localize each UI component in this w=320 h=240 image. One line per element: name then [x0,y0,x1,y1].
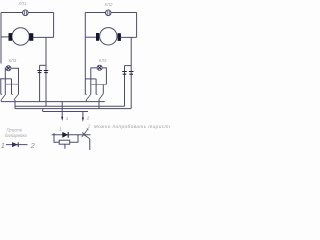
svg-text:Можно попробовать тиристор: Можно попробовать тиристор [94,124,170,129]
svg-text:КЛ4: КЛ4 [99,58,107,63]
diode VD1 on main wire [62,132,68,138]
svg-text:2: 2 [30,141,35,150]
wire: vertical x0.8 [0,79,2,95]
arrow 2 (down) [82,112,84,122]
bottom module: main wire [52,134,91,136]
wire: S3 to bus A [85,100,87,102]
wire: S2 to bus C [14,100,16,109]
wire: motor M2 left brush lead [85,36,96,38]
wire: lead from R1 bottom [64,144,66,149]
relay box K1 (open bottom) [5,68,18,94]
thyristor VS1 scribble [82,132,90,139]
bus D [43,111,88,113]
connector contact ticks on x39.6 [37,71,42,73]
wire: vertical x96.1 [95,79,97,95]
connector contact ticks on x46 [44,71,49,73]
wire: motor M1 loop left vertical [0,13,2,64]
wire: motor M2 top wire [85,12,136,14]
relay box K1 bottom edge (faint) [5,83,18,85]
motor M2 [96,28,121,45]
leg curls (contact tips) [85,93,97,94]
legend diode [12,142,18,147]
contact S2 blade [14,94,19,100]
contact S3 blade [86,94,91,100]
leg curls (contact tips) [1,93,13,94]
wire: motor M2 loop left vertical [84,13,86,95]
contact S4 blade [99,94,104,100]
wire: stub into K2 [85,78,96,80]
wire: vertical x124.5 down to bus B [124,66,126,107]
contact S1 blade [1,94,5,100]
wire: link bus C to bus D at x42.7 [42,109,44,112]
connector X1 on M1 top wire [23,10,29,16]
arrow 1 (down) [61,102,63,121]
relay box K2 [91,68,107,94]
lamp HL1 [6,66,11,71]
connector contact ticks on x131.2 [129,72,134,75]
bus B [15,105,125,107]
gate arrow (up-right) [85,129,88,133]
wire: stub into K1 from left edge [0,78,12,80]
wire: connector tee y65.6 [125,65,132,67]
legend wire [6,144,28,146]
wire: K2 right leg [102,85,104,94]
lamp HL2 [97,65,102,70]
wire: drop from M1 right brush lead down (x46) [45,37,47,106]
motor M1 [9,28,34,45]
wire: motor M1 right brush lead [33,36,53,38]
wire: motor M1 loop right vertical [53,13,55,38]
wire: drop from M2 right brush lead down (x131.2) [130,37,132,108]
svg-text:2: 2 [86,116,90,121]
svg-text:КЛ2: КЛ2 [105,2,113,7]
connector contact ticks on x124.5 [122,72,127,75]
wire: motor M1 left brush lead [1,36,9,38]
svg-text:Просто: Просто [7,127,23,132]
svg-text:1: 1 [59,127,62,132]
wire: connector tee y65.3 [40,64,46,66]
connector X2 on M2 top wire [105,10,111,16]
wire: S4 to bus C [98,100,100,109]
wire: shunt branch right side [70,135,78,142]
bus A [1,101,105,103]
wire: S1 to bus A [0,100,2,102]
wire: motor M2 right brush lead [121,36,137,38]
bus C [15,108,131,110]
wire: cathode lead down to bottom edge [89,139,91,150]
svg-text:КЛ3: КЛ3 [9,58,17,63]
terminal tick [53,133,55,137]
legend: terminal 1 -diode- terminal 2 [1,141,35,150]
svg-text:КЛ1: КЛ1 [19,1,27,6]
wire: motor M2 loop right vertical [136,13,138,38]
relay box K2 bottom edge (faint) [91,84,107,86]
wire: vertical x39.6 down to bus A [39,65,41,101]
wire: vertical x11.5 [11,79,13,95]
wire: shunt branch left drop [54,135,59,142]
svg-text:1: 1 [1,141,5,150]
wire: motor M1 top wire [1,12,54,14]
resistor R1 [59,140,69,144]
svg-text:батарейка: батарейка [5,133,27,138]
